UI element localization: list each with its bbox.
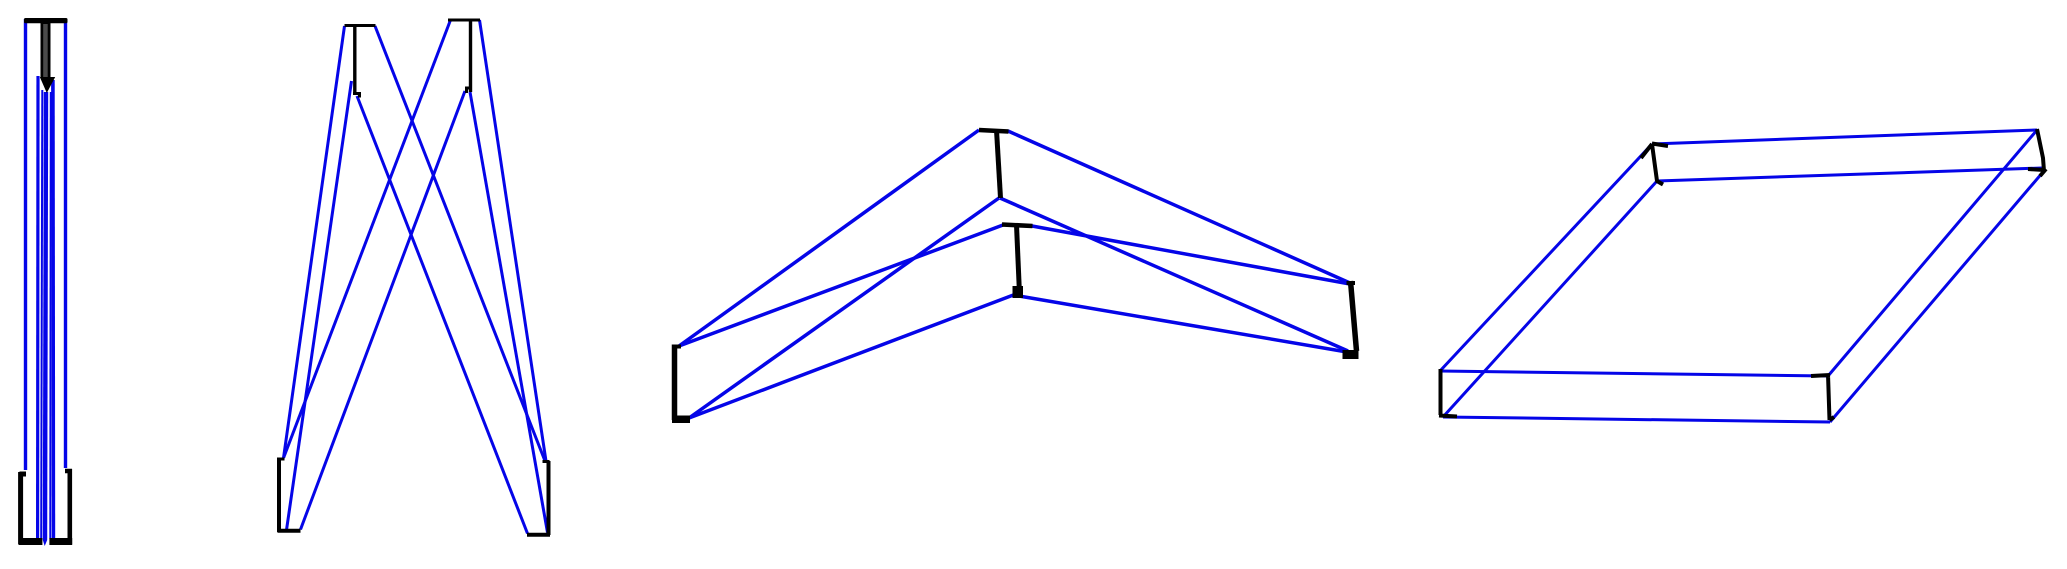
lower-right plate top edge L7 [1032,226,1350,284]
left outer blue member line [24,19,27,470]
bottom-right hub wall [547,461,551,535]
top-right hub vertical bar [469,19,472,93]
bottom black U bucket floor right segment [49,538,72,545]
bottom-left hub floor [278,529,301,533]
member M1 top edge (TL cap-left to BL serif) [284,26,345,458]
inner blue member line d [49,92,52,539]
bottom face back edge [1657,168,2042,181]
bottom face left edge [1443,181,1657,417]
right end black bar foot [1343,350,1359,359]
bottom-right hub floor [527,533,550,537]
inner blue member line b [41,90,42,539]
top-center black bar cap [979,130,1009,132]
upper-left plate bottom edge L2 [689,198,999,418]
central black arrow stem [41,23,51,78]
bottom-left hub top serif [278,458,285,461]
central black arrow head [40,77,55,93]
top-left hub cap [345,24,376,27]
upper-left plate top edge L1 [679,130,979,346]
top-right hub cap [448,19,480,22]
lower-left plate bottom edge L6 [689,294,1016,418]
right outer blue member line [64,19,67,468]
left end black bar top serif [672,345,681,349]
mid black bar foot [1013,286,1024,298]
top face front edge [1440,371,1828,376]
central black arrow stem grey core [43,24,48,80]
upper-right plate bottom edge L4 [1000,198,1348,351]
left end black bar foot [672,416,690,424]
left end black bar [672,345,678,421]
top black cap bar [24,18,68,23]
right end black bar top serif [1347,281,1356,285]
front-right corner black edge [1811,374,1834,420]
upper-right plate top edge L3 [1008,131,1350,283]
inner blue member line e [51,80,55,539]
front-left corner black edge [1439,369,1457,417]
mid black bar cap [1002,225,1033,227]
bottom-left hub wall [277,458,281,533]
inner blue member line c (descends through floor gap) [45,92,46,540]
top-left hub foot [353,94,360,98]
member M4 bottom edge (TR foot to BL bottom-right) [301,91,466,530]
member M3 top edge (TR cap-right to BR serif) [480,20,547,461]
right end black bar vertical [1351,281,1357,351]
bottom black U bucket floor left segment [19,538,43,545]
member M2 bottom edge (TL foot to BR bottom bar left end) [357,96,528,534]
top-left hub vertical bar [353,24,356,94]
top face left edge [1440,144,1652,371]
mid black bar vertical [1017,225,1020,294]
member M1 bottom edge (TL foot to BL bottom-left) [287,81,352,530]
inner blue member line c pointed tip [43,540,47,546]
member M3 bottom edge (TR foot to BR bottom-right) [470,92,548,533]
bottom-right hub top serif [543,460,550,463]
member M2 top edge (TL cap-right to BR serif) [375,26,545,461]
bottom black U bucket left wall [20,472,27,544]
member M4 top edge (TR cap-left to BL serif) [284,20,451,458]
bottom black U bucket right wall [65,469,72,544]
top-center black bar vertical [997,130,1001,198]
top face back edge [1652,130,2037,144]
bottom face right edge [1830,172,2043,422]
lower-right plate bottom edge L8 [1019,296,1347,352]
inner blue member line a [36,76,40,539]
top face right edge [1828,130,2037,376]
bottom face front edge [1443,417,1830,422]
lower-left plate top edge L5 [679,225,1003,346]
back-right corner black edge [2028,129,2046,176]
top-right hub foot [467,88,473,93]
back-left corner black edge [1641,144,1668,185]
